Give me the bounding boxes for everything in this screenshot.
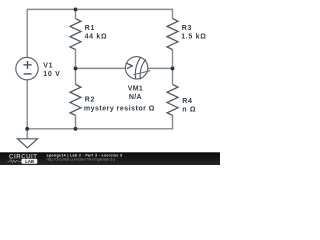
wire node B to R4 top [172, 68, 174, 84]
svg-text:R2: R2 [85, 97, 95, 104]
VM1 arc 1 [135, 57, 141, 78]
wire voltmeter left [76, 67, 127, 69]
svg-text:44 kΩ: 44 kΩ [85, 33, 108, 40]
wire R3 top lead [172, 9, 174, 19]
wire V1 bottom to ground junction [26, 80, 28, 139]
resistor R1 [70, 19, 81, 50]
wire voltmeter right [148, 67, 173, 69]
svg-text:VM1: VM1 [128, 86, 143, 93]
CircuitLab logo squiggle [8, 160, 22, 163]
VM1 needle [133, 71, 150, 75]
wire bottom horizontal [27, 128, 174, 130]
footer bar [0, 152, 220, 165]
ground [18, 139, 38, 148]
svg-text:R1: R1 [85, 25, 95, 32]
node dot ground junction [25, 127, 29, 131]
wire top horizontal [27, 8, 174, 10]
V1 minus sign [24, 73, 32, 75]
svg-text:R4: R4 [182, 98, 192, 105]
VM1 arrow glyph [127, 63, 132, 68]
svg-text:mystery resistor Ω: mystery resistor Ω [84, 105, 155, 112]
wire R3 bottom lead to node B [172, 49, 174, 68]
node dot R1 top on top wire [74, 7, 78, 11]
CircuitLab logo LAB box [21, 159, 37, 164]
wire node A to R2 top [75, 68, 77, 84]
svg-text:N/A: N/A [129, 94, 142, 101]
resistor R4 [167, 85, 178, 116]
svg-text:LAB: LAB [25, 159, 34, 164]
svg-text:n Ω: n Ω [182, 106, 196, 113]
resistor R3 [167, 19, 178, 50]
svg-text:R3: R3 [182, 25, 192, 32]
node B dot (R3/R4/VM right) [171, 66, 175, 70]
node A dot (R1/R2/VM left) [74, 66, 78, 70]
voltmeter VM1 [125, 57, 147, 79]
wire left vertical (top corner to V1 top) [26, 9, 28, 58]
wire R1 top lead [75, 9, 77, 19]
svg-text:V1: V1 [43, 62, 53, 69]
V1 plus sign [23, 61, 31, 69]
node dot R2 bottom [74, 127, 78, 131]
svg-text:1.5 kΩ: 1.5 kΩ [181, 33, 206, 40]
wire R2 bottom lead [75, 115, 77, 129]
svg-text:http://circuitlab.com/c6nv7hkv: http://circuitlab.com/c6nv7hkv7rq8e/lab-… [47, 158, 116, 162]
svg-text:10 V: 10 V [43, 71, 60, 78]
resistor R2 [70, 85, 81, 116]
VM1 arc 2 [140, 59, 146, 79]
wire R1 bottom lead to node A [75, 49, 77, 68]
voltage source V1 [16, 57, 38, 79]
wire R4 bottom lead [172, 115, 174, 129]
